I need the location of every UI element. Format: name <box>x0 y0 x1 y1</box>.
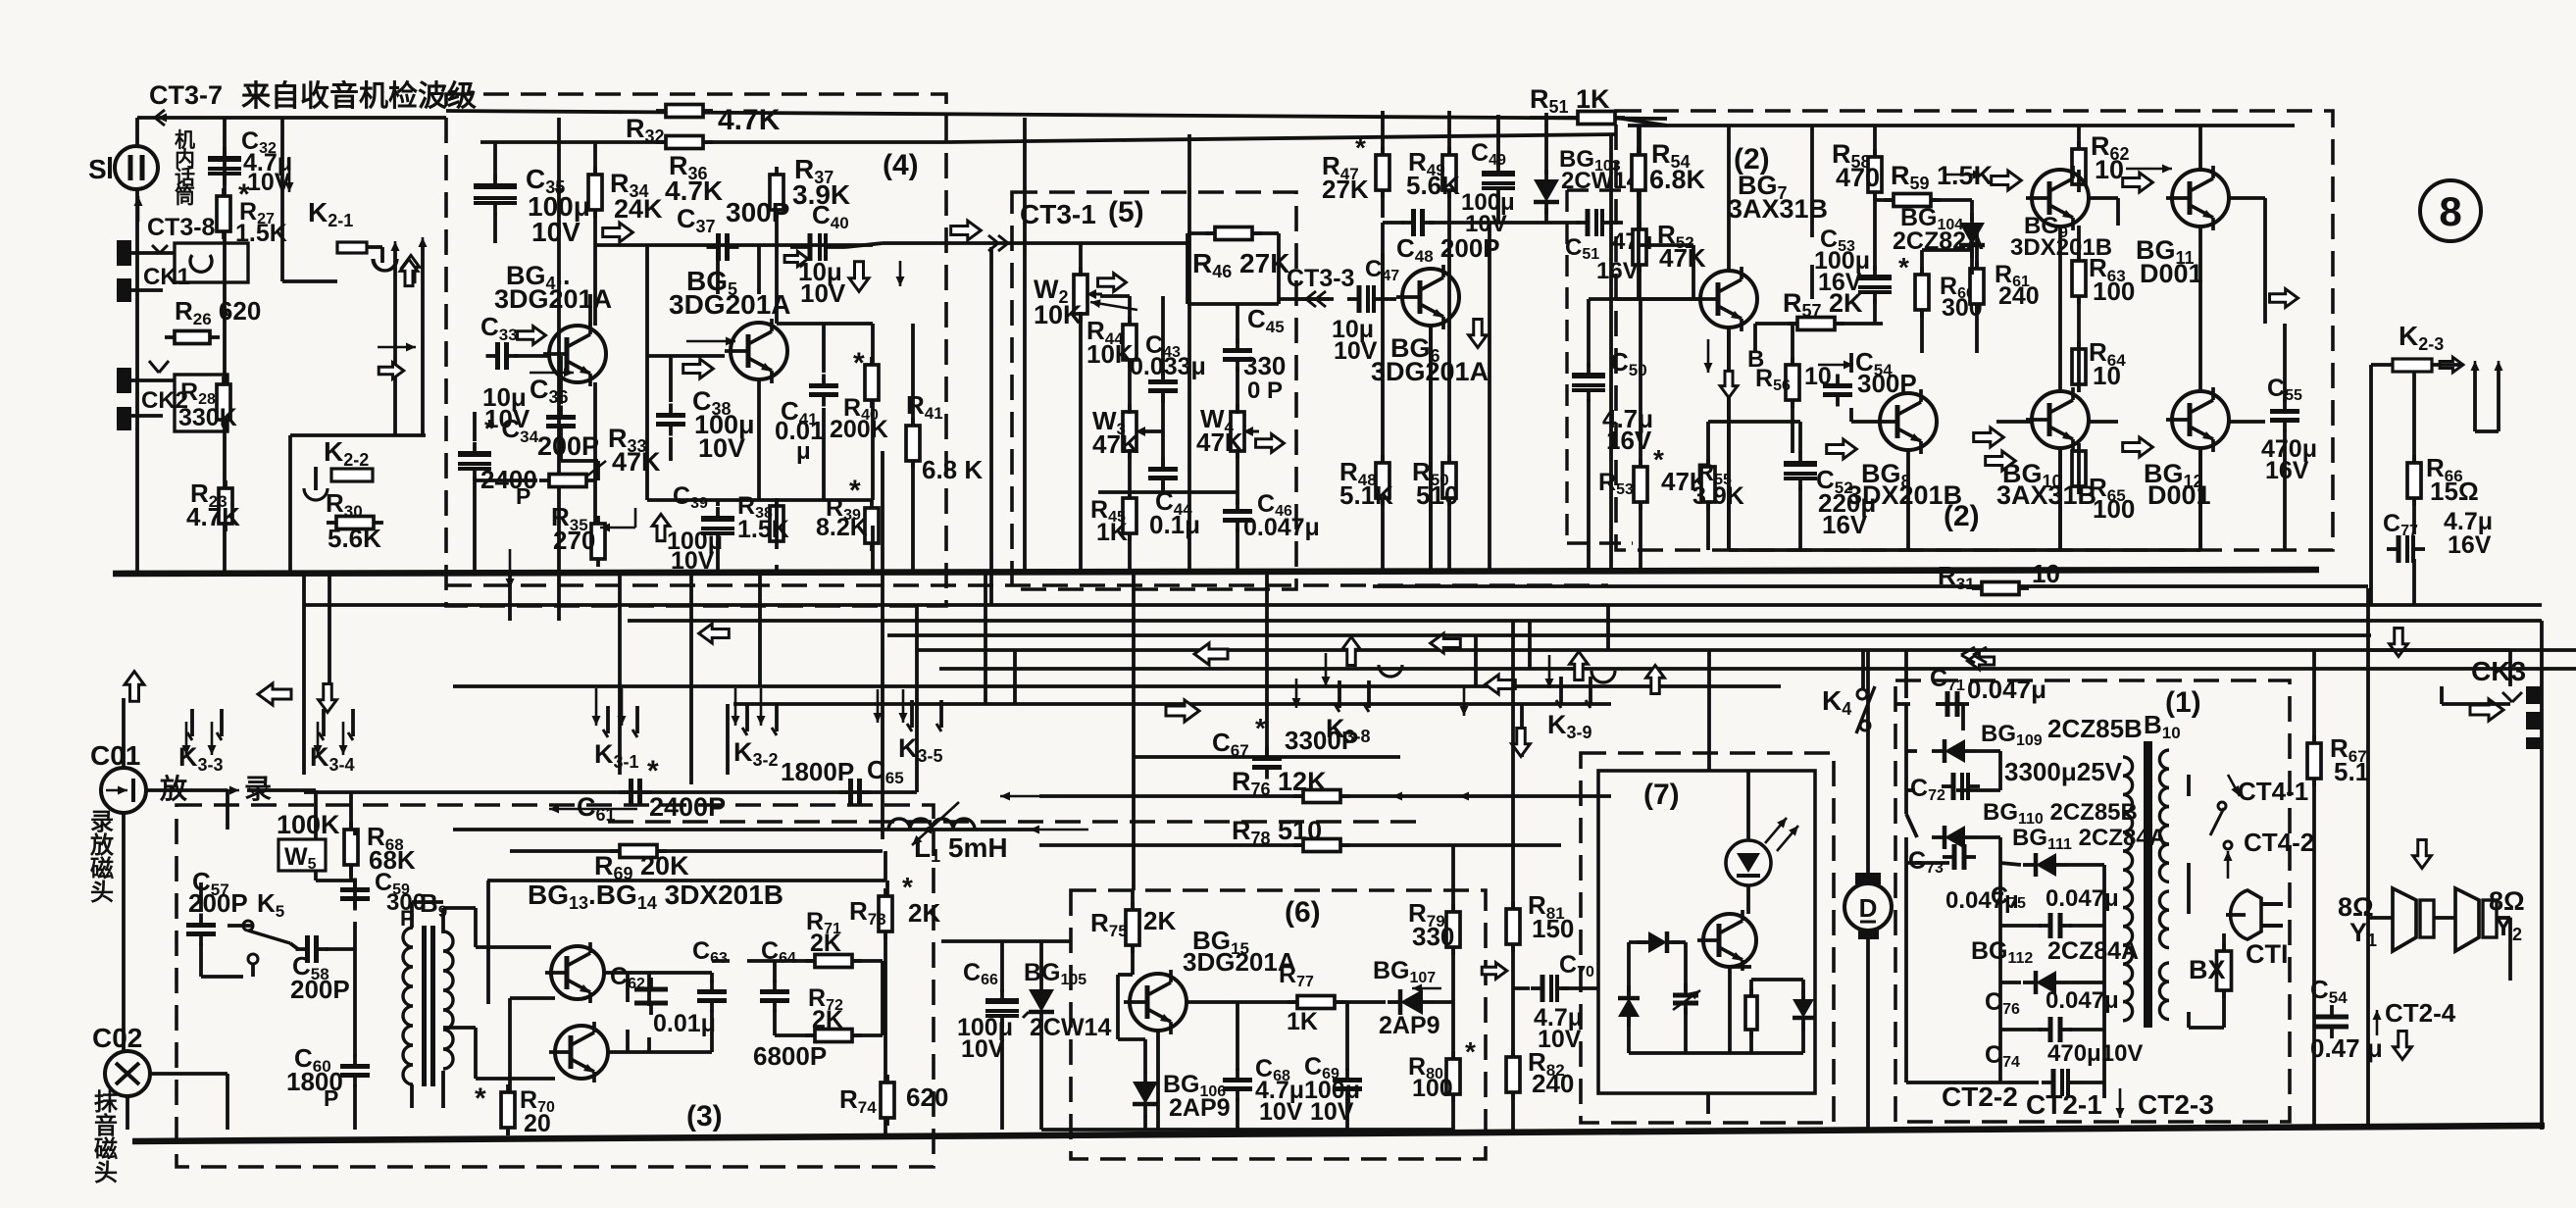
capacitor C34 <box>458 442 491 480</box>
pot W5 <box>278 822 326 881</box>
wire bg6 net <box>1383 111 1667 572</box>
wire R31 rail <box>1373 584 2368 588</box>
drop arrow K3-9 <box>1545 655 1554 688</box>
resistor R82 <box>1506 1049 1520 1100</box>
thin arrow mid2 <box>922 826 981 834</box>
transistor BG13 <box>545 942 604 1003</box>
label CT3-8 <box>147 214 216 241</box>
svg-text:(1): (1) <box>2165 686 2201 719</box>
diode box7 <box>1637 931 1680 953</box>
svg-text:8: 8 <box>2439 188 2461 234</box>
svg-text:3300μ25V: 3300μ25V <box>2004 757 2123 786</box>
arrow blk a13 <box>2390 629 2408 657</box>
svg-text:R26​ 620: R26​ 620 <box>175 296 261 328</box>
arrow r C52 <box>1827 439 1857 459</box>
thin arrow c54 <box>1818 361 1853 370</box>
svg-text:2K: 2K <box>908 898 940 928</box>
svg-text:4.7K: 4.7K <box>665 176 723 206</box>
svg-text:*: * <box>475 1082 486 1115</box>
svg-text:10V: 10V <box>1259 1098 1303 1126</box>
svg-text:330: 330 <box>1243 351 1286 380</box>
label C59 300P <box>375 869 426 931</box>
pot W2 <box>1074 267 1102 322</box>
svg-text:BG110​ 2CZ85B: BG110​ 2CZ85B <box>1983 799 2138 828</box>
svg-text:CT2-3: CT2-3 <box>2138 1089 2214 1120</box>
resistor R34 <box>588 167 602 218</box>
wire band4 <box>917 648 2576 652</box>
svg-text:100K: 100K <box>277 810 340 839</box>
wire v stub8 <box>1904 650 1908 698</box>
svg-text:2K: 2K <box>812 1006 843 1033</box>
resistor R61 <box>1970 261 1984 312</box>
switch K2-2 <box>304 436 373 500</box>
svg-text:0.47 μ: 0.47 μ <box>2310 1033 2383 1063</box>
label C67 3300P <box>1212 713 1358 760</box>
svg-text:*: * <box>849 475 861 507</box>
wire v right edge <box>2540 621 2544 1130</box>
wire v k4 <box>1861 650 1865 689</box>
resistor R46 <box>1205 227 1262 240</box>
drop arrows K3-3 <box>182 722 217 755</box>
wire v left mid <box>618 572 622 775</box>
switch CT4 <box>2210 775 2240 879</box>
drop arrows K3-4 <box>314 722 348 755</box>
wire v c67 <box>1265 572 1269 757</box>
svg-text:200P: 200P <box>290 975 350 1004</box>
arrow r C40 <box>784 251 808 266</box>
svg-text:10V: 10V <box>698 433 745 463</box>
capacitor C33 <box>486 342 519 370</box>
label CT3-3 <box>1287 265 1354 292</box>
svg-text:200P: 200P <box>537 431 599 461</box>
svg-text:0.01μ: 0.01μ <box>653 1010 716 1037</box>
svg-text:270: 270 <box>553 526 595 555</box>
svg-text:(7): (7) <box>1643 779 1680 811</box>
svg-text:抹: 抹 <box>94 1088 119 1116</box>
label R74 620 <box>839 1082 948 1117</box>
switch K3-8 <box>1326 680 1371 746</box>
arrow r BG12 <box>2123 437 2153 457</box>
svg-text:10V: 10V <box>671 547 715 575</box>
svg-text:L1​ 5mH: L1​ 5mH <box>914 832 1008 866</box>
hook a <box>1379 665 1402 677</box>
svg-text:2400P: 2400P <box>649 792 726 822</box>
svg-text:D001: D001 <box>2140 259 2203 288</box>
wire v bg7e <box>1727 327 1731 550</box>
label C84 <box>2310 975 2383 1063</box>
wire band5 <box>939 667 2576 671</box>
capacitor C39 <box>701 507 734 545</box>
wire v bg1112b <box>2198 448 2202 550</box>
label BG105 <box>1024 959 1111 1041</box>
label C43 <box>1130 331 1206 380</box>
label C33 <box>480 312 530 433</box>
label 3300P-5 <box>1243 351 1286 404</box>
transistor BG12 <box>2166 387 2229 452</box>
label R78 510 <box>1232 816 1322 848</box>
head C02 <box>105 1051 150 1096</box>
capacitor C47 <box>1347 285 1386 313</box>
label C50 <box>1602 347 1653 455</box>
svg-text:10K: 10K <box>1034 300 1083 329</box>
thin arrow d R41 <box>896 261 905 286</box>
resistor R52 <box>1633 222 1646 273</box>
label BG111 <box>2012 825 2166 853</box>
label (4) <box>883 149 919 181</box>
resistor R70 <box>501 1084 515 1135</box>
svg-text:放: 放 <box>159 773 188 804</box>
thin arrow mid1 <box>549 805 637 814</box>
hook b <box>1591 671 1615 682</box>
wire box2 net <box>1616 126 2285 550</box>
svg-text:CK3: CK3 <box>2471 656 2526 686</box>
wire v box7 feed <box>1707 650 1711 771</box>
wire box7 net <box>1629 771 1803 1114</box>
label R73 2K <box>849 872 940 929</box>
resistor R60 <box>1915 267 1929 318</box>
phototransistor BG <box>1697 910 1756 971</box>
transistor BG6 <box>1396 265 1459 329</box>
resistor R37 <box>770 167 783 218</box>
capacitor C74 <box>2042 1069 2080 1096</box>
arrow small3 <box>285 157 294 192</box>
arrow blk a2 <box>319 684 337 713</box>
arrow r W4 <box>1256 434 1285 453</box>
pot W4 <box>1231 404 1259 459</box>
label R50 510 <box>1412 457 1458 510</box>
label C74 <box>1985 1040 2143 1071</box>
capacitor C62 <box>634 978 668 1015</box>
resistor R38 <box>770 498 783 549</box>
svg-text:2AP9: 2AP9 <box>1379 1012 1440 1039</box>
label B point <box>1747 346 1764 373</box>
capacitor C76 <box>2039 1017 2072 1042</box>
section box (6) dashed <box>1071 890 1486 1159</box>
arrow blk a15 <box>2394 1032 2412 1060</box>
dashed sub-box edge <box>1567 190 1633 543</box>
svg-text:来自收音机检波级: 来自收音机检波级 <box>241 79 477 113</box>
capacitor C71 <box>1936 691 1969 717</box>
capacitor C44 <box>1148 458 1178 490</box>
svg-text:*: * <box>853 347 865 379</box>
svg-text:CTI: CTI <box>2246 939 2289 969</box>
wire v stub4 <box>1606 605 1610 650</box>
arrow ct3-3 <box>1296 291 1334 307</box>
svg-text:300P: 300P <box>726 197 789 227</box>
wire band2 <box>628 619 2542 623</box>
svg-text:μ: μ <box>796 438 811 465</box>
label R38 1.5K <box>737 492 789 543</box>
thin arrow down1 <box>1460 686 1469 716</box>
wire v mid3 <box>758 572 762 686</box>
label R46 27K <box>1192 248 1289 281</box>
svg-text:*: * <box>1898 252 1909 282</box>
transistor BG15 <box>1124 970 1187 1034</box>
capacitor C41 <box>809 375 838 407</box>
label C34 <box>480 414 539 509</box>
label C48 200P <box>1396 233 1500 266</box>
label R39 8.2K <box>816 475 868 541</box>
label BG107 <box>1373 957 1440 1039</box>
arrow blk a10 <box>2470 699 2503 721</box>
resistor box7 <box>1745 988 1757 1037</box>
label BG11 <box>2136 235 2203 288</box>
wire bg5 net <box>647 210 913 572</box>
arrow r BG11 <box>2123 173 2153 192</box>
svg-text:1.5K: 1.5K <box>737 516 789 543</box>
thin arrow mid3 <box>1030 826 1088 834</box>
jack CK1 <box>117 240 248 302</box>
svg-text:0.047μ: 0.047μ <box>2046 987 2119 1014</box>
thin arrow base5 <box>686 337 735 346</box>
arrow r BG4 <box>518 327 546 345</box>
wire ct31 <box>845 243 985 247</box>
transformer B10 <box>2123 710 2181 1028</box>
wire v right main <box>2366 588 2370 1130</box>
capacitor C73 <box>1943 844 1976 870</box>
resistor R31 <box>1972 582 2029 595</box>
capacitor C67 <box>1252 747 1282 780</box>
label C47 <box>1332 256 1399 365</box>
label (2)b <box>1944 500 1980 532</box>
svg-text:P: P <box>516 483 530 509</box>
wire box3 net <box>201 790 887 1135</box>
resistor R36h <box>656 136 713 149</box>
wire main bus <box>113 570 2319 574</box>
svg-text:(6): (6) <box>1285 896 1321 929</box>
wire w5 net <box>247 790 351 877</box>
svg-text:3DG201A: 3DG201A <box>669 289 791 320</box>
svg-text:510: 510 <box>1416 480 1458 510</box>
wire v mid2 <box>726 704 730 775</box>
transistor BG11 <box>2166 166 2229 230</box>
resistor R48 <box>1376 455 1389 506</box>
capacitor C48 <box>1402 209 1435 236</box>
resistor BX <box>2217 943 2232 998</box>
label R79 330 <box>1408 898 1454 951</box>
wire v mic a <box>135 118 139 145</box>
svg-text:6.8 K: 6.8 K <box>922 455 983 484</box>
svg-text:*: * <box>647 755 659 787</box>
capacitor C43 <box>1148 371 1178 403</box>
svg-text:R59​ 1.5K: R59​ 1.5K <box>1891 161 1994 193</box>
label R33 47K <box>586 424 661 477</box>
svg-text:P: P <box>324 1085 338 1111</box>
label R60 300 <box>1898 252 1983 322</box>
svg-text:(3): (3) <box>686 1100 723 1132</box>
svg-text:47K: 47K <box>1092 429 1139 459</box>
label R36 4.7K <box>665 151 723 206</box>
label C58 200P <box>290 951 350 1004</box>
wire v r67col <box>2312 650 2316 1130</box>
drop arrows K3-2 <box>732 688 766 726</box>
wire r52 net <box>1589 126 1694 572</box>
diode BG111 <box>2023 853 2068 877</box>
svg-text:0.1μ: 0.1μ <box>1149 510 1200 539</box>
double chev <box>1961 647 1987 663</box>
arrow r edge <box>951 221 982 240</box>
pot W3 <box>1123 404 1151 459</box>
switch K3-4 <box>310 709 355 775</box>
resistor R56 <box>1786 357 1799 408</box>
wire v mid <box>689 605 693 784</box>
wire box4 rail <box>480 140 946 144</box>
resistor R41 <box>906 418 920 469</box>
svg-text:10: 10 <box>2032 559 2060 588</box>
diode BG110 <box>1932 826 1977 849</box>
resistor R30 <box>327 517 383 529</box>
svg-text:1800P: 1800P <box>781 757 854 786</box>
wire band1 <box>304 603 2542 607</box>
wire top rail <box>137 116 446 120</box>
capacitor C54 <box>1823 375 1852 407</box>
label C63 <box>692 937 728 967</box>
svg-text:5.6K: 5.6K <box>328 524 381 553</box>
label R48 5.1K <box>1339 457 1393 510</box>
wire v bg7c <box>1727 126 1731 271</box>
svg-text:10V: 10V <box>961 1035 1005 1063</box>
label BG103 <box>1559 146 1641 194</box>
thin arrow R35 <box>600 508 635 532</box>
label 放 <box>159 773 188 804</box>
label BG112 <box>1971 937 2139 967</box>
resistor R76 <box>1293 790 1350 803</box>
svg-text:15Ω: 15Ω <box>2430 477 2479 506</box>
label CT2-1 <box>2026 1089 2102 1120</box>
wire v bg1112 <box>2198 226 2202 391</box>
label head2 vertical <box>94 1088 119 1186</box>
label R77 1K <box>1279 961 1318 1035</box>
capacitor C35 <box>474 175 517 215</box>
label C45 <box>1247 304 1285 336</box>
wire v bg911 <box>2058 226 2062 391</box>
label R53 47K <box>1598 444 1708 498</box>
svg-text:10V: 10V <box>800 278 846 308</box>
svg-text:100: 100 <box>1412 1075 1453 1102</box>
arrow u C39 <box>652 514 670 540</box>
resistor R53 <box>1634 459 1647 510</box>
wire R34 <box>593 142 597 245</box>
svg-text:5.1: 5.1 <box>2334 757 2369 786</box>
wire v mid4 <box>915 605 919 792</box>
capacitor C61 <box>620 779 652 806</box>
resistor R75 <box>1126 902 1139 953</box>
label C66 <box>957 959 1013 1063</box>
thin arrow base4 <box>530 369 574 377</box>
label CT2-4 <box>2373 998 2456 1035</box>
svg-text:CT2-2: CT2-2 <box>1942 1082 2018 1112</box>
arrow blk a16 <box>1482 963 1507 980</box>
svg-text:16V: 16V <box>1606 426 1652 455</box>
resistor R39 <box>865 500 879 551</box>
label R63 100 <box>2089 253 2135 306</box>
capacitor C38 <box>656 404 685 436</box>
jack CK3 <box>2471 656 2543 749</box>
svg-text:放: 放 <box>89 831 115 859</box>
wire v stub3 <box>1528 621 1532 669</box>
resistor R51 <box>1568 112 1625 125</box>
svg-text:C02: C02 <box>92 1023 142 1053</box>
label BG4 <box>494 261 612 314</box>
label C44 <box>1149 486 1200 539</box>
label CTI <box>2246 939 2289 969</box>
label C76 <box>1985 987 2119 1018</box>
svg-text:5.1K: 5.1K <box>1339 480 1393 510</box>
wire motor <box>1866 939 1870 1128</box>
transistor BG14 <box>549 1022 608 1082</box>
label R64 10 <box>2089 337 2126 390</box>
svg-text:*: * <box>1465 1036 1476 1067</box>
label (1) <box>2165 686 2201 719</box>
label R59 1.5K <box>1891 161 1994 193</box>
thin arrow w2 <box>1090 299 1137 310</box>
svg-text:240: 240 <box>1532 1069 1574 1098</box>
resistor R49 <box>1442 147 1456 198</box>
section box (5) dashed <box>1012 192 1296 589</box>
wire v stub1 <box>1013 650 1017 704</box>
arrow small2 <box>506 549 515 588</box>
arrow blk a3 <box>699 624 730 643</box>
diode BG104 <box>1959 213 1985 258</box>
svg-text:0.033μ: 0.033μ <box>1130 353 1206 380</box>
capacitor C72 <box>1942 773 1980 800</box>
label BG12 <box>2144 459 2211 510</box>
section box (3) dashed <box>177 805 934 1167</box>
label CT2-2 <box>1942 1082 2018 1112</box>
label BG104 <box>1893 204 1984 255</box>
wire v k col2 <box>328 572 331 698</box>
label R66 15 <box>2426 453 2479 506</box>
svg-text:CT3-1: CT3-1 <box>1020 199 1096 229</box>
capacitor C53 <box>1858 266 1892 304</box>
capacitor C55 <box>2270 400 2299 432</box>
svg-text:150: 150 <box>1532 914 1574 943</box>
svg-text:录: 录 <box>90 809 114 835</box>
plug CTI <box>2226 890 2283 939</box>
svg-text:200K: 200K <box>830 416 888 443</box>
arrow blk a17 <box>125 672 144 702</box>
svg-text:S: S <box>88 154 107 184</box>
svg-text:音: 音 <box>94 1112 118 1139</box>
arrow CT3-8 <box>134 196 143 222</box>
transistor BG10 <box>2026 387 2089 452</box>
section box (4) dashed <box>446 94 946 606</box>
svg-text:0 P: 0 P <box>1247 377 1283 404</box>
label R82 240 <box>1528 1047 1574 1098</box>
resistor R59 <box>1884 194 1941 207</box>
resistor R64 <box>2072 341 2086 392</box>
label R54 6.8K <box>1649 139 1706 194</box>
resistor R47 <box>1376 147 1389 198</box>
label C32 <box>241 127 292 196</box>
resistor R28 <box>217 377 230 428</box>
svg-text:B: B <box>1747 346 1764 373</box>
label C77 <box>2383 508 2493 559</box>
label R51 1K <box>1530 84 1610 117</box>
svg-text:470: 470 <box>1836 163 1880 192</box>
label 来自收音机检波级 <box>241 79 477 113</box>
arrow blk a4 <box>1194 643 1228 665</box>
label BG5 <box>669 266 791 320</box>
svg-text:*: * <box>1355 132 1366 163</box>
wire c01 <box>124 698 227 1051</box>
svg-text:10K: 10K <box>1086 339 1134 369</box>
svg-text:10V: 10V <box>247 169 291 196</box>
arrow into CT3-7 <box>155 110 201 126</box>
inductor L1 <box>888 802 975 845</box>
LED D1 <box>1726 818 1798 885</box>
svg-text:筒: 筒 <box>175 184 195 208</box>
